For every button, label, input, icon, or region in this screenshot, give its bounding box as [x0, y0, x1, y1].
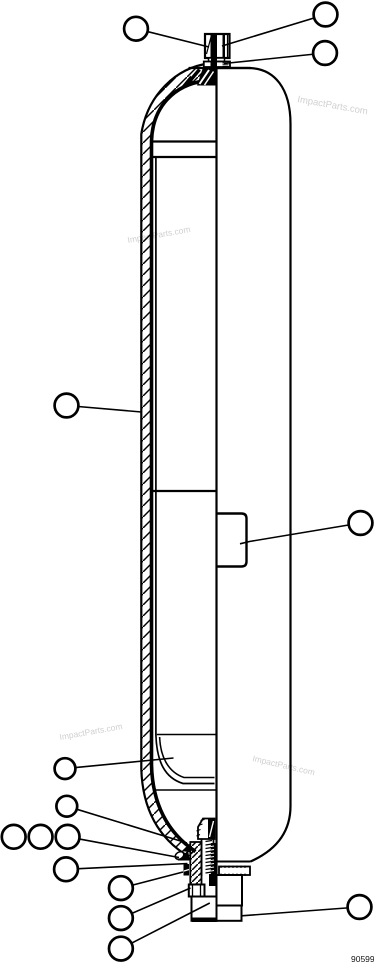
svg-text:90599: 90599	[351, 954, 374, 963]
